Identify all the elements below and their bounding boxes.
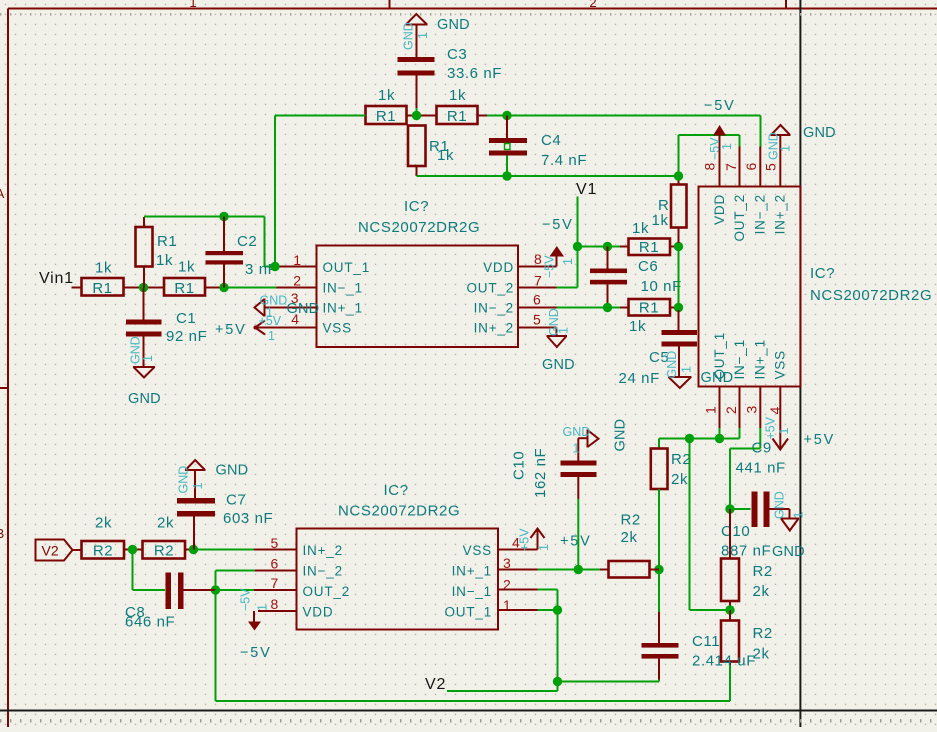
svg-text:R2: R2 (93, 543, 113, 560)
svg-text:−5V: −5V (704, 98, 736, 114)
svg-text:OUT_2: OUT_2 (466, 280, 514, 295)
resistor R2 (vertical upper of pair) (721, 509, 773, 610)
node junction V2/OUT_1/C11 (553, 677, 562, 686)
svg-text:1: 1 (779, 145, 793, 152)
svg-text:GND: GND (772, 544, 805, 560)
svg-text:8: 8 (534, 251, 542, 267)
svg-text:2k: 2k (753, 583, 770, 600)
power GND (above C7) (177, 460, 249, 494)
svg-text:IN+_2: IN+_2 (773, 194, 788, 234)
node junction between R2 pair (725, 605, 734, 614)
node junction V1/wire (573, 242, 582, 251)
svg-text:R2: R2 (753, 563, 773, 580)
capacitor C6 (590, 247, 682, 308)
capacitor C7 (177, 470, 273, 550)
svg-text:1: 1 (720, 143, 734, 150)
svg-text:A: A (0, 186, 5, 201)
node junction C6 bottom (603, 303, 612, 312)
global label V2 (36, 540, 82, 561)
svg-text:−5V: −5V (240, 645, 272, 661)
IC1 pin 5 stub with power GND (518, 308, 575, 373)
svg-text:V2: V2 (42, 543, 59, 559)
capacitor C2 (206, 217, 278, 288)
svg-text:GND: GND (437, 17, 470, 33)
svg-text:C11: C11 (692, 633, 720, 650)
node junction C2 top (219, 212, 228, 221)
svg-text:IC?: IC? (404, 198, 429, 215)
resistor R1 (vertical 1k below node) (408, 126, 454, 167)
svg-text:IN−_1: IN−_1 (452, 584, 492, 599)
svg-text:IN+_2: IN+_2 (303, 543, 343, 558)
resistor R2 (horizontal, unlabeled box) (609, 512, 660, 578)
IC3 pin 4 stub with power +5V (pointing down) (764, 387, 836, 450)
IC1 pin names right (466, 260, 514, 336)
svg-text:−5V: −5V (239, 588, 253, 611)
node junction Vin divider (124, 283, 165, 292)
wire top row right (478, 116, 761, 148)
svg-text:R1: R1 (92, 280, 112, 297)
wire OUT_1 down (557, 610, 559, 682)
IC2 pin 6 stub + wire (216, 571, 297, 591)
svg-text:R1: R1 (639, 300, 659, 317)
svg-text:7: 7 (534, 273, 542, 289)
svg-text:1: 1 (680, 366, 694, 373)
svg-text:C1: C1 (176, 310, 196, 327)
node junction feedback row (674, 171, 683, 180)
node junction C10a bottom (574, 565, 583, 574)
svg-text:24 nF: 24 nF (619, 370, 660, 387)
resistor R1 (to IN-_2 node, bottom) (620, 299, 679, 335)
svg-text:C10: C10 (721, 523, 750, 540)
svg-text:GND: GND (128, 391, 161, 407)
svg-text:R2: R2 (621, 512, 641, 529)
IC1 pin names left (323, 260, 371, 336)
resistor R2 (vertical below wire) (651, 439, 692, 490)
svg-text:C10: C10 (511, 451, 528, 480)
svg-text:C6: C6 (638, 258, 658, 275)
svg-text:OUT_1: OUT_1 (712, 332, 727, 380)
svg-text:1k: 1k (178, 259, 195, 276)
svg-text:5: 5 (763, 163, 779, 171)
IC2 pin 1 wire (498, 609, 558, 611)
svg-text:7.4 nF: 7.4 nF (541, 152, 587, 169)
capacitor C11 (642, 570, 757, 682)
svg-text:IC?: IC? (384, 482, 409, 499)
capacitor C1 (126, 288, 207, 368)
svg-text:IN−_1: IN−_1 (323, 280, 363, 295)
wire V2 to OUT_1 (447, 682, 558, 692)
svg-text:1: 1 (573, 442, 580, 456)
node junction C4 top (502, 111, 511, 120)
wire to IN+_2 (194, 549, 255, 551)
resistor R2 (input left) (82, 515, 125, 560)
IC3 pin 5 stub with power GND (763, 125, 836, 187)
wire C3 to node (416, 108, 418, 116)
svg-text:NCS20072DR2G: NCS20072DR2G (338, 503, 460, 520)
IC3 pin 3 stub bottom (744, 387, 761, 449)
svg-text:1: 1 (703, 406, 719, 414)
capacitor C5 (619, 310, 698, 387)
svg-text:IN+_2: IN+_2 (474, 321, 514, 336)
wire mid column down (690, 439, 731, 611)
node junction C10 left (725, 504, 734, 513)
svg-text:GND: GND (613, 419, 629, 452)
svg-text:1: 1 (777, 428, 791, 435)
svg-text:1k: 1k (378, 87, 395, 104)
svg-text:2.414 uF: 2.414 uF (692, 653, 756, 670)
svg-text:IN+_1: IN+_1 (452, 564, 492, 579)
svg-text:VDD: VDD (483, 260, 514, 275)
capacitor C10 (162 nF, vertical) (511, 448, 597, 570)
node junction pin1/pin2 (553, 605, 562, 614)
svg-text:1k: 1k (156, 252, 173, 269)
svg-text:2: 2 (293, 273, 301, 289)
svg-text:1k: 1k (95, 260, 112, 277)
svg-text:GND: GND (402, 22, 416, 50)
IC3 pin 6 stub (743, 116, 761, 187)
power GND (above C3) (402, 14, 470, 57)
svg-text:1k: 1k (449, 87, 466, 104)
svg-text:GND: GND (287, 301, 320, 317)
svg-text:−5V: −5V (542, 217, 574, 233)
svg-text:4: 4 (767, 407, 783, 415)
svg-text:GND: GND (260, 294, 288, 308)
capacitor C8 (horizontal) (125, 550, 216, 631)
svg-text:8: 8 (271, 596, 279, 612)
IC2 pin names right (444, 543, 492, 620)
svg-text:7: 7 (271, 575, 279, 591)
svg-text:162 nF: 162 nF (532, 448, 549, 498)
svg-text:2k: 2k (621, 529, 638, 546)
wire to C11 bottom (558, 681, 660, 683)
svg-text:+5V: +5V (764, 416, 778, 439)
svg-text:NCS20072DR2G: NCS20072DR2G (810, 287, 932, 304)
svg-text:C7: C7 (226, 492, 246, 509)
svg-text:2k: 2k (157, 515, 174, 532)
node junction R1/R vertical (674, 242, 683, 251)
capacitor C3 (398, 46, 503, 108)
wire between nodes x=678.5 (678, 247, 680, 313)
svg-text:IN−_2: IN−_2 (753, 194, 768, 234)
svg-text:IN+_1: IN+_1 (323, 301, 363, 316)
svg-text:B: B (0, 526, 4, 541)
IC1 pin 4 stub with power +5V (pointing left) (254, 314, 317, 343)
svg-text:1: 1 (416, 32, 430, 39)
svg-text:VDD: VDD (303, 605, 334, 620)
svg-text:+5V: +5V (804, 432, 836, 448)
label C9 / 441 nF (736, 440, 786, 477)
IC2 pin 2 wire (498, 590, 558, 611)
svg-text:10 nF: 10 nF (641, 278, 682, 295)
svg-text:IN−_2: IN−_2 (474, 301, 514, 316)
svg-text:+5V: +5V (518, 528, 532, 551)
svg-text:6: 6 (533, 292, 541, 308)
svg-text:OUT_2: OUT_2 (303, 584, 351, 599)
IC2 pin numbers right (503, 535, 520, 614)
IC2 pin 4 stub with power +5V (up arrow) (498, 528, 592, 551)
svg-text:1: 1 (189, 0, 196, 10)
node junction C7 bottom (189, 545, 198, 554)
IC2 pin 3 wire to R2 (498, 569, 609, 571)
svg-text:R2: R2 (753, 625, 773, 642)
svg-text:1: 1 (537, 544, 551, 551)
IC2 pin names left (303, 543, 351, 620)
svg-text:VSS: VSS (773, 350, 788, 379)
capacitor C10 (887 nF, horizontal) (721, 492, 790, 560)
svg-text:GND: GND (542, 357, 575, 373)
svg-text:V2: V2 (425, 676, 446, 693)
IC2 pin numbers left (271, 535, 279, 612)
svg-text:IN+_1: IN+_1 (753, 339, 768, 379)
svg-text:+5V: +5V (560, 534, 592, 550)
pin stubs between top resistors (407, 115, 437, 117)
svg-text:VDD: VDD (712, 194, 727, 225)
svg-text:1: 1 (256, 604, 270, 611)
IC1 pin 8 stub with power -5V (518, 217, 575, 278)
resistor R1 (vertical feedback 1k) (136, 217, 178, 288)
wire V1 row to R1 (578, 246, 629, 248)
svg-text:33.6 nF: 33.6 nF (447, 65, 502, 82)
resistor R1 (series to pin2) (164, 259, 205, 298)
svg-text:1k: 1k (629, 318, 646, 335)
resistor R1 (top-right of pair) (437, 87, 478, 125)
node junction R2h right (654, 565, 663, 574)
svg-text:Vin1: Vin1 (39, 270, 74, 287)
resistor R2 (vertical lower of pair) (721, 610, 773, 667)
node junction C8 left column (124, 545, 143, 554)
svg-text:GND: GND (773, 491, 787, 519)
IC3 pin 2 stub bottom (723, 387, 740, 439)
IC2 pin 8 stub with power -5V (pointing down) (239, 588, 297, 661)
svg-text:8: 8 (702, 163, 718, 171)
node junction top resistors (412, 111, 421, 120)
svg-text:1k: 1k (652, 212, 669, 229)
svg-text:1: 1 (268, 329, 275, 343)
wire to IN-_1 (224, 287, 317, 289)
resistor R1 (top-left of pair) (366, 87, 407, 125)
IC3 pin 8 stub with power -5V (702, 98, 736, 187)
svg-text:VSS: VSS (463, 543, 492, 558)
svg-text:92 nF: 92 nF (166, 328, 207, 345)
svg-text:−5V: −5V (543, 255, 557, 278)
svg-text:+5V: +5V (215, 322, 247, 338)
svg-text:7: 7 (723, 163, 739, 171)
svg-text:1: 1 (792, 512, 806, 519)
wire R1 to C2 node (205, 287, 224, 289)
pin 1 stub OUT_1 (277, 266, 317, 268)
svg-text:C3: C3 (447, 46, 467, 63)
node junction C8 right (211, 585, 220, 594)
IC3 pin 7 stub (723, 147, 740, 187)
resistor R1 (to OUT_2 node, top) (629, 220, 679, 256)
svg-text:6: 6 (743, 163, 759, 171)
IC1 pin numbers left (291, 252, 302, 327)
node junction R1 right (674, 303, 683, 312)
svg-text:OUT_1: OUT_1 (444, 605, 492, 620)
IC3 pin names bottom (712, 332, 788, 380)
IC2 pin 7 stub + wire (216, 589, 297, 591)
svg-text:GND: GND (216, 463, 249, 479)
IC1 pin 7 wire to V1 (518, 197, 578, 288)
power GND (above C10a, pointing right) (563, 419, 629, 456)
svg-text:R2: R2 (671, 451, 691, 468)
svg-text:C2: C2 (237, 233, 257, 250)
svg-text:1: 1 (557, 327, 571, 334)
svg-text:GND: GND (177, 466, 191, 494)
svg-text:2k: 2k (95, 515, 112, 532)
svg-text:VSS: VSS (323, 321, 352, 336)
svg-text:441 nF: 441 nF (736, 460, 786, 477)
svg-text:+5V: +5V (259, 314, 282, 328)
svg-text:IN−_1: IN−_1 (732, 339, 747, 379)
svg-text:C4: C4 (541, 132, 561, 149)
wire IC3 pin1/pin2 row (659, 438, 740, 440)
svg-text:R1: R1 (174, 280, 194, 297)
wire OUT_2 top path (679, 135, 740, 176)
svg-text:R2: R2 (154, 543, 174, 560)
svg-text:OUT_1: OUT_1 (323, 260, 371, 275)
svg-text:1: 1 (561, 258, 575, 265)
node junction C6 top (603, 242, 612, 251)
svg-text:R1: R1 (157, 233, 177, 250)
wire IN-_2 to bottom rail (216, 590, 731, 701)
svg-text:5: 5 (533, 312, 541, 328)
svg-text:GND: GND (563, 425, 591, 439)
node junction pin1 (715, 434, 724, 443)
node junction C2 bottom (219, 283, 228, 292)
node junction mid column (685, 434, 694, 443)
wire R2 to pin3 row of IC2 (658, 489, 660, 570)
svg-text:R1: R1 (447, 108, 467, 125)
svg-text:OUT_2: OUT_2 (732, 194, 747, 242)
svg-text:GND: GND (665, 351, 679, 379)
node junction feedback/OUT_1 (270, 262, 279, 271)
wire feedback vertical to stage1 (275, 116, 366, 267)
IC3 pin 1 stub bottom (703, 387, 720, 439)
svg-text:2: 2 (723, 406, 739, 414)
svg-text:1: 1 (191, 483, 205, 490)
op-amp IC3 NCS20072DR2G (699, 187, 933, 387)
svg-text:2: 2 (589, 0, 596, 10)
IC3 pin names top (712, 194, 788, 242)
resistor R1 (Vin input) (72, 260, 124, 298)
svg-text:1: 1 (141, 355, 155, 362)
svg-text:3: 3 (744, 406, 760, 414)
svg-text:6: 6 (271, 556, 279, 572)
IC1 pin 6 wire (518, 307, 620, 309)
wire bottom feedback row (417, 166, 679, 176)
power GND (right of C10) (772, 491, 806, 560)
svg-text:1: 1 (293, 252, 301, 268)
IC2 pin 5 stub (254, 549, 297, 551)
svg-text:GND: GND (803, 125, 836, 141)
svg-text:R1: R1 (376, 108, 396, 125)
IC1 pin numbers right (533, 251, 542, 328)
power GND (below C1) (128, 336, 161, 407)
svg-text:IC?: IC? (810, 265, 835, 282)
capacitor C4 (489, 116, 587, 177)
op-amp IC2 NCS20072DR2G (297, 482, 499, 630)
svg-text:NCS20072DR2G: NCS20072DR2G (358, 219, 480, 236)
resistor R (vertical 1k feedback) (652, 176, 687, 243)
svg-text:887 nF: 887 nF (721, 543, 771, 560)
op-amp IC1 NCS20072DR2G (317, 198, 519, 347)
svg-text:R1: R1 (639, 239, 659, 256)
svg-text:IN−_2: IN−_2 (303, 564, 343, 579)
power GND (below C5) (665, 351, 733, 388)
resistor R2 (input right) (143, 515, 194, 560)
wire IC3 pin3 path (730, 449, 760, 510)
svg-text:V1: V1 (576, 181, 597, 198)
svg-text:2k: 2k (671, 471, 688, 488)
wire top of stage1 (144, 217, 278, 267)
svg-text:603 nF: 603 nF (223, 510, 273, 527)
svg-text:1k: 1k (632, 220, 649, 237)
svg-text:646 nF: 646 nF (125, 614, 175, 631)
node junction C4 bottom (502, 171, 511, 180)
IC1 pin 3 stub with power GND (pointing left) (255, 294, 320, 320)
svg-text:1k: 1k (437, 147, 454, 164)
